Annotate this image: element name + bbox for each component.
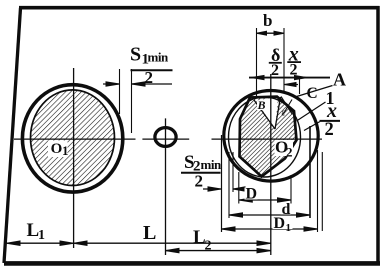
- label delta over 2: [269, 45, 282, 79]
- label 1 with leader: [297, 102, 326, 121]
- d dimension line: [229, 213, 310, 217]
- centerline vertical hole O1: [73, 68, 75, 248]
- svg-text:x: x: [326, 100, 337, 122]
- extra extension line right: [321, 152, 323, 231]
- svg-text:min: min: [148, 50, 169, 65]
- svg-text:L: L: [143, 222, 156, 244]
- svg-text:1: 1: [38, 228, 45, 243]
- label d: [281, 201, 292, 218]
- centerline horizontal small hole: [142, 138, 189, 140]
- border frame bottom: [4, 261, 380, 266]
- radius line to rotated corner: [275, 97, 281, 129]
- centerline vertical small hole: [165, 118, 167, 255]
- svg-text:ε: ε: [282, 108, 286, 119]
- hole 1 circle thick: [22, 85, 122, 192]
- label S2min over 2: [181, 152, 222, 190]
- S2min arrows: [203, 187, 246, 191]
- wedge cutout white: [257, 97, 279, 129]
- S1min/2 extension line right: [131, 69, 133, 133]
- D extension line right: [290, 175, 292, 204]
- svg-text:O: O: [51, 141, 63, 157]
- bolt head circumscribed circle thin: [229, 97, 301, 177]
- centerline horizontal hole O1: [14, 138, 136, 140]
- label x over 2 top: [287, 44, 301, 79]
- S2min extension line right: [232, 152, 234, 192]
- D dimension line: [239, 198, 291, 202]
- corner construction line: [283, 100, 292, 115]
- svg-text:1: 1: [286, 222, 292, 234]
- label O1: [48, 141, 69, 159]
- S1min/2 arrows: [103, 82, 172, 86]
- small hole circle: [155, 128, 176, 147]
- short extension line x=299: [299, 79, 301, 95]
- svg-text:2: 2: [205, 239, 212, 254]
- svg-text:b: b: [263, 11, 272, 30]
- centerline vertical hole O2: [270, 74, 272, 255]
- b dimension line with arrows: [257, 31, 285, 35]
- svg-text:1: 1: [62, 143, 69, 158]
- border frame top: [19, 6, 380, 10]
- L2 dimension line: [166, 248, 271, 252]
- L1 and L dimension line: [7, 241, 271, 245]
- label S1min over 2: [130, 44, 173, 88]
- d extension line left: [228, 152, 230, 218]
- D1 extension line right: [317, 150, 319, 232]
- svg-text:2: 2: [325, 120, 334, 140]
- D extension line left: [238, 172, 240, 204]
- border frame left slanted: [4, 8, 21, 263]
- S1min/2 extension line left: [119, 69, 121, 114]
- border frame right: [376, 6, 380, 265]
- label D1: [273, 215, 293, 234]
- small arrow at 284: [285, 83, 299, 87]
- svg-text:min: min: [201, 157, 222, 172]
- svg-text:2: 2: [195, 172, 204, 191]
- centerline horizontal hole O2: [212, 138, 323, 140]
- label O2: [275, 137, 294, 159]
- label D: [245, 186, 258, 203]
- label x over 2 right with leader: [304, 100, 340, 140]
- svg-text:A: A: [333, 70, 346, 90]
- label B: [257, 98, 267, 112]
- svg-text:S: S: [130, 44, 141, 66]
- radius line to B: [254, 100, 275, 129]
- bolt 1 shaft hatched disc: [31, 90, 115, 186]
- b extension line right: [283, 28, 285, 91]
- bolt head hexagon hatched fill: [240, 97, 297, 177]
- D1 extension line left: [221, 135, 223, 232]
- hole 2 circle thick: [224, 91, 318, 182]
- svg-text:2: 2: [145, 68, 154, 87]
- d extension line right: [309, 126, 311, 218]
- svg-text:2: 2: [271, 62, 279, 79]
- label A with leader: [295, 86, 333, 98]
- svg-text:2: 2: [286, 145, 293, 160]
- D1 dimension line: [222, 227, 318, 231]
- b extension line left: [256, 28, 258, 97]
- svg-text:C: C: [307, 85, 318, 102]
- svg-text:B: B: [257, 98, 266, 112]
- bolt 1 shaft outline: [31, 90, 115, 186]
- svg-text:D: D: [274, 215, 286, 232]
- bolt head hexagon outline: [240, 97, 297, 177]
- rotated corner edge line: [281, 97, 293, 115]
- delta/x dimension line: [249, 76, 330, 80]
- svg-text:D: D: [246, 186, 258, 203]
